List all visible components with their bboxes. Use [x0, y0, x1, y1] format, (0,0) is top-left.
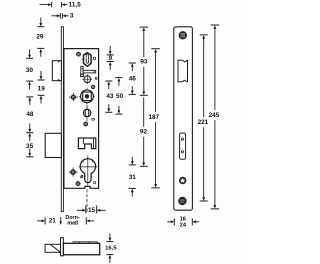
svg-text:48: 48 [26, 111, 34, 118]
dimension 21 with Dornmass label [37, 220, 42, 222]
latch tail barrel [82, 59, 92, 61]
deadbolt guide block [78, 138, 95, 149]
faceplate front view [174, 27, 193, 210]
dimension 3 faceplate thickness [51, 15, 57, 17]
locking pin with slot [83, 109, 90, 116]
dimension 93 [140, 26, 149, 28]
lock case body [64, 49, 99, 189]
centerline below case [86, 189, 88, 213]
dimension 245 [211, 24, 220, 26]
svg-text:221: 221 [198, 119, 209, 126]
dimension 29 [40, 18, 42, 24]
svg-text:245: 245 [209, 112, 220, 119]
centerline below follower [86, 105, 88, 109]
svg-text:maß: maß [67, 220, 79, 226]
deadbolt opening cover [180, 133, 186, 159]
dimension 31 [131, 157, 133, 162]
dimension 19 [40, 71, 42, 77]
svg-text:30: 30 [26, 67, 34, 74]
small pin right of latch tail [93, 57, 95, 59]
fixing pin left (cross) [69, 96, 78, 98]
dimension 187 [151, 48, 160, 50]
screw S2 [91, 85, 95, 89]
svg-text:187: 187 [148, 114, 159, 121]
dimension 30 [29, 49, 31, 55]
dimension 15 [77, 209, 83, 211]
svg-text:31: 31 [129, 174, 137, 181]
svg-text:46: 46 [129, 75, 137, 82]
faceplate strip (side view) [61, 27, 63, 212]
latch opening with latch head [178, 60, 188, 82]
svg-text:19: 19 [38, 85, 46, 92]
dimension 92 [143, 98, 145, 127]
dimension 16,5 [109, 233, 111, 238]
svg-text:92: 92 [140, 129, 148, 136]
screw S1 top-left of case [76, 52, 81, 57]
faceplate section bar (plan view) [61, 238, 64, 256]
top fixing screw [179, 31, 187, 39]
dimension 16 24 faceplate widths [167, 221, 171, 223]
latch spring lever [81, 66, 83, 76]
dimension 9 [109, 46, 111, 52]
svg-text:3: 3 [70, 13, 74, 20]
svg-text:11,5: 11,5 [69, 2, 82, 9]
svg-text:43: 43 [106, 93, 114, 100]
svg-text:50: 50 [116, 93, 124, 100]
dimension 50 [115, 77, 122, 79]
bottom fixing screw [178, 197, 186, 205]
cross pin left of cylinder [69, 171, 78, 173]
svg-text:93: 93 [140, 59, 148, 66]
small square mark near case corner [94, 182, 96, 184]
latch nose (plan view) [45, 244, 60, 252]
dimension 221 [200, 34, 208, 36]
svg-text:15: 15 [88, 207, 96, 214]
dimension 11,5 latch protrusion [40, 4, 49, 6]
screw S4 [76, 181, 81, 186]
euro profile cylinder hole [80, 159, 95, 183]
screw S3 [86, 117, 88, 121]
dimension 48 [26, 96, 33, 98]
guide pin with cross marks [84, 76, 91, 83]
lock body (plan view) [73, 242, 98, 244]
dimension 43 [105, 80, 112, 82]
small stop right of locking pin [92, 119, 95, 121]
svg-text:29: 29 [36, 33, 44, 40]
dimension 35 [29, 136, 31, 141]
diameter mark [81, 176, 83, 178]
svg-text:16,5: 16,5 [105, 246, 117, 252]
small pin near case edge [95, 77, 97, 79]
handle follower nut [79, 95, 95, 97]
svg-text:24: 24 [180, 222, 187, 228]
dimension 46 [129, 62, 136, 64]
latch bolt (side view, protruding) [52, 61, 61, 81]
torx screw [179, 177, 186, 184]
deadbolt (side view, thrown) [45, 133, 61, 157]
svg-text:21: 21 [49, 218, 57, 225]
